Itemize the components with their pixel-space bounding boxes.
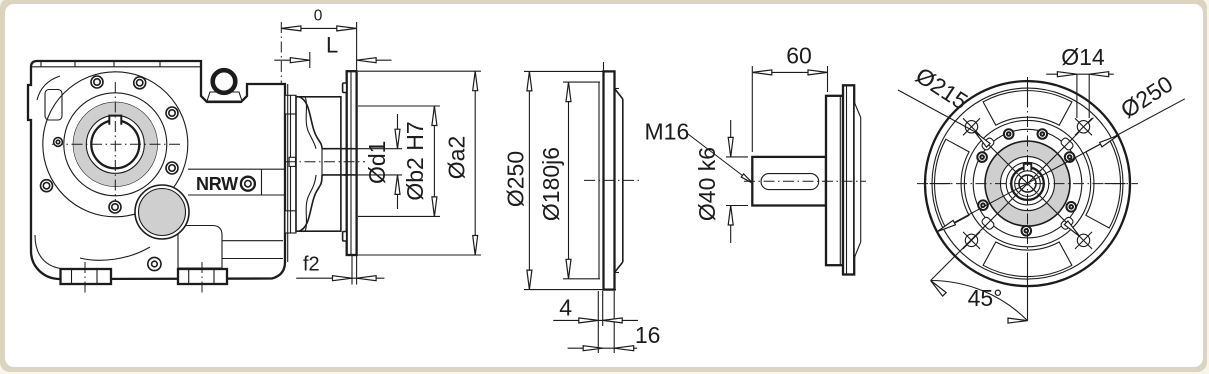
svg-text:Ø40 k6: Ø40 k6 bbox=[694, 147, 720, 221]
svg-text:Ø14: Ø14 bbox=[1061, 44, 1105, 70]
svg-text:Ø215: Ø215 bbox=[911, 62, 972, 114]
svg-text:L: L bbox=[326, 33, 338, 58]
svg-text:Ø250: Ø250 bbox=[1116, 71, 1177, 123]
svg-text:NRW: NRW bbox=[196, 174, 238, 194]
svg-text:Ø250: Ø250 bbox=[503, 151, 529, 207]
svg-text:60: 60 bbox=[786, 43, 812, 69]
svg-text:45°: 45° bbox=[968, 285, 1003, 311]
svg-text:Ød1: Ød1 bbox=[364, 141, 390, 184]
svg-text:Øa2: Øa2 bbox=[444, 136, 470, 179]
svg-text:f2: f2 bbox=[303, 254, 320, 276]
svg-text:4: 4 bbox=[559, 295, 572, 321]
svg-text:Øb2 H7: Øb2 H7 bbox=[402, 121, 428, 200]
svg-text:0: 0 bbox=[314, 7, 323, 24]
svg-text:M16: M16 bbox=[645, 119, 690, 145]
svg-text:Ø180j6: Ø180j6 bbox=[538, 147, 564, 221]
svg-text:16: 16 bbox=[635, 322, 661, 348]
